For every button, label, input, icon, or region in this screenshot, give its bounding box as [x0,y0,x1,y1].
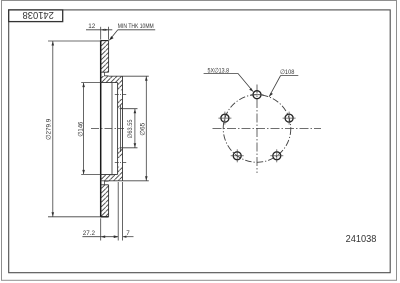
svg-text:241038: 241038 [346,234,377,246]
svg-text:∅63.55: ∅63.55 [127,119,134,139]
svg-text:7: 7 [126,230,130,237]
svg-text:27.2: 27.2 [83,230,96,237]
svg-text:∅65: ∅65 [140,122,147,136]
svg-text:241038: 241038 [22,9,54,21]
svg-text:∅108: ∅108 [280,69,295,76]
svg-text:∅279.9: ∅279.9 [46,118,53,140]
svg-text:∅146: ∅146 [77,121,84,137]
svg-text:12: 12 [88,23,96,30]
